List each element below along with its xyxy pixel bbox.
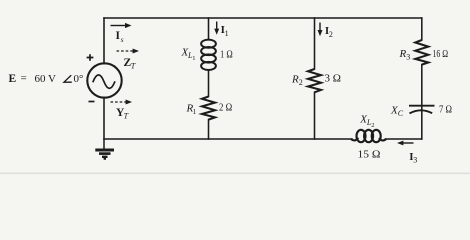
svg-text:1 Ω: 1 Ω (220, 49, 233, 61)
wire bottom left segment (104, 138, 352, 140)
svg-text:1: 1 (225, 29, 229, 38)
svg-text:15 Ω: 15 Ω (358, 149, 381, 161)
wire left column below source (103, 97, 105, 139)
label XL1 (181, 47, 196, 62)
wire branch1 middle lead (208, 70, 210, 97)
angle symbol (64, 75, 72, 82)
wire left column above source (103, 18, 105, 64)
resistor R1 (202, 97, 215, 120)
ground (95, 139, 114, 159)
svg-text:3 Ω: 3 Ω (325, 73, 341, 85)
label XC (390, 105, 404, 119)
label I1 (221, 24, 229, 38)
svg-text:60 V: 60 V (35, 73, 57, 85)
wire branch3 middle lead (421, 65, 423, 139)
svg-text:7 Ω: 7 Ω (439, 104, 452, 116)
capacitor XC (409, 106, 435, 114)
svg-text:16 Ω: 16 Ω (433, 48, 449, 60)
wire branch2 top lead (314, 18, 316, 69)
label R2 (291, 74, 303, 88)
svg-text:3: 3 (406, 53, 410, 62)
current arrow I1 (214, 22, 219, 35)
svg-text:2: 2 (371, 122, 374, 129)
svg-text:0°: 0° (74, 73, 84, 85)
label E = 60 V angle 0deg (9, 73, 84, 86)
label Is (116, 30, 124, 44)
inductor XL1 (201, 40, 216, 70)
current arrow I2 (318, 23, 323, 37)
svg-text:s: s (121, 35, 124, 44)
svg-text:E: E (9, 73, 17, 85)
label I3 (409, 151, 417, 165)
svg-text:2: 2 (299, 78, 303, 87)
svg-text:1: 1 (193, 107, 197, 116)
label I2 (325, 25, 333, 39)
svg-text:2: 2 (329, 30, 333, 39)
label R3 (399, 48, 411, 62)
current arrow I3 (397, 141, 414, 146)
svg-text:C: C (398, 109, 404, 118)
admittance arrow YT (111, 100, 133, 105)
resistor R3 (415, 40, 428, 65)
current arrow Is (111, 23, 132, 28)
svg-text:T: T (131, 62, 136, 71)
wire top (104, 17, 422, 19)
label R1 (186, 103, 197, 117)
wire bottom right segment (386, 138, 422, 140)
wire branch2 bottom lead (314, 92, 316, 139)
svg-text:2 Ω: 2 Ω (219, 102, 232, 114)
label YT (116, 107, 129, 121)
plus polarity (87, 54, 94, 61)
inductor XL2 (351, 130, 386, 142)
impedance arrow ZT (117, 49, 140, 54)
label XL2 (359, 114, 374, 130)
minus polarity (89, 101, 95, 103)
svg-text:3: 3 (413, 156, 417, 165)
wire branch1 bottom lead (208, 120, 210, 139)
scan shadow band bottom (0, 173, 470, 175)
resistor R2 (308, 69, 321, 92)
wire branch3 top lead (421, 18, 423, 40)
label ZT (124, 57, 136, 71)
voltage source E (87, 63, 121, 97)
wire branch1 top lead (208, 18, 210, 40)
svg-text:T: T (124, 112, 129, 121)
svg-text:=: = (21, 73, 27, 85)
svg-text:1: 1 (192, 55, 195, 62)
